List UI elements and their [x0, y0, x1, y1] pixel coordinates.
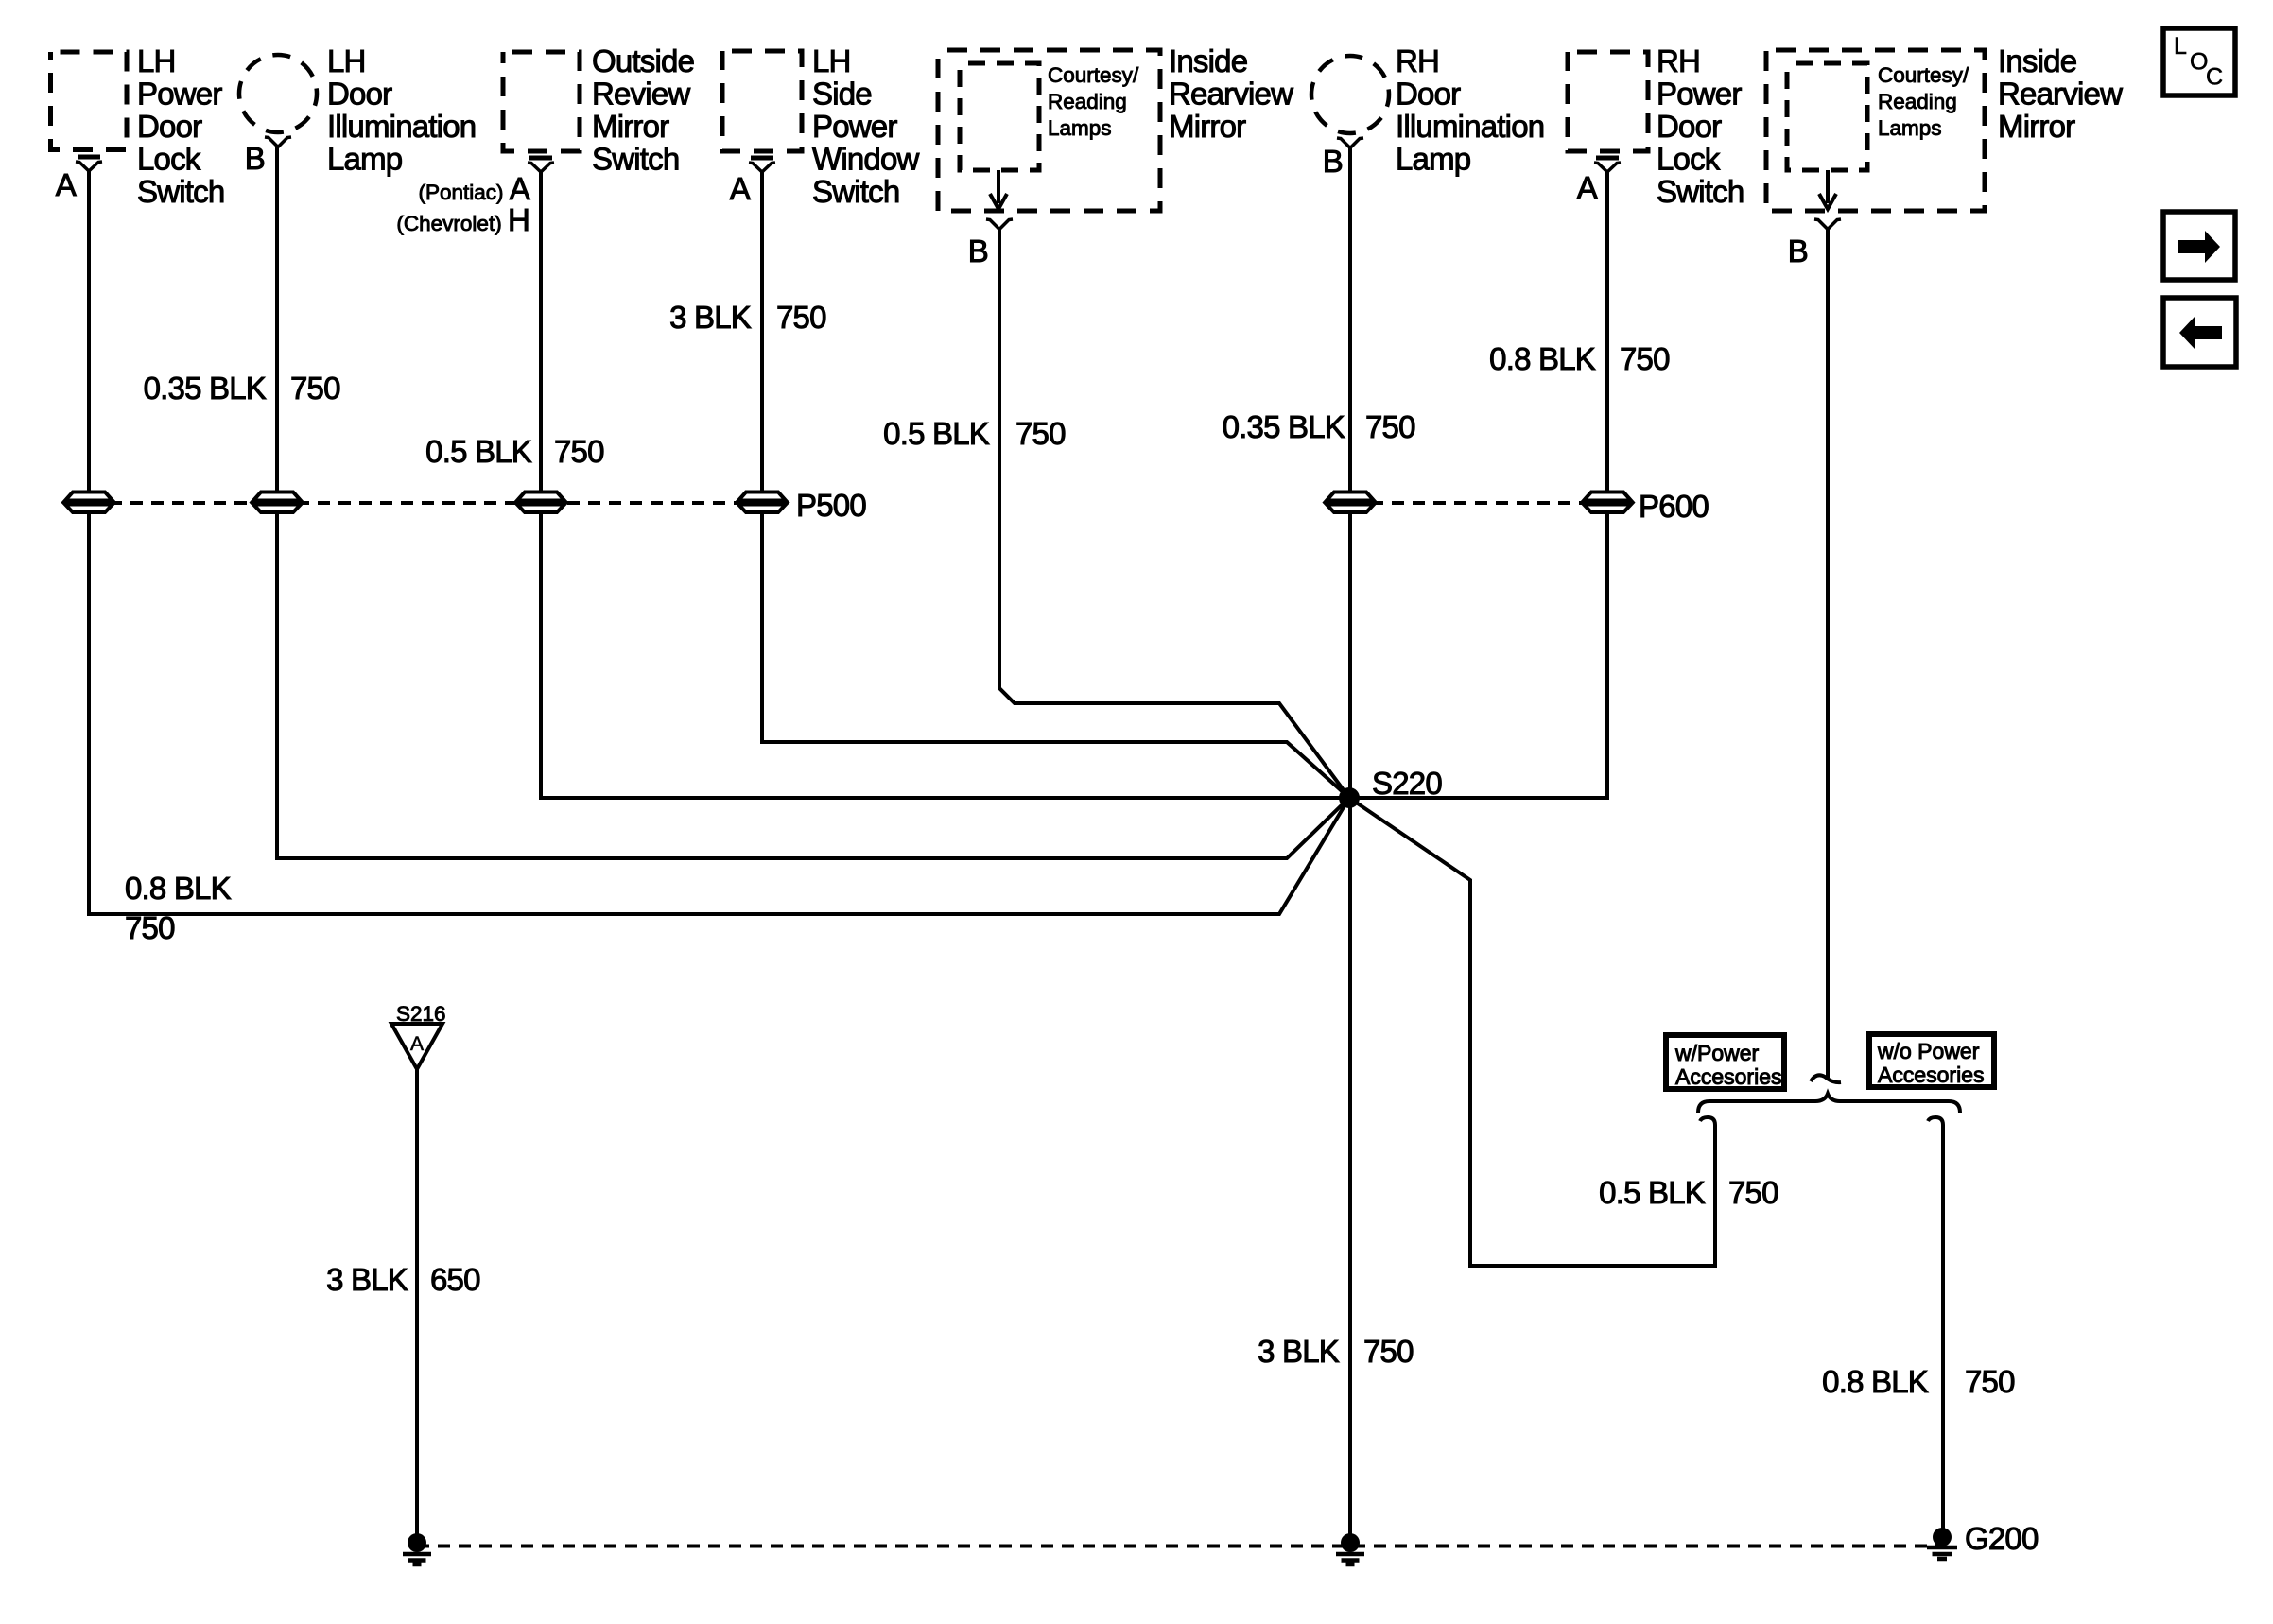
wire label 0.8 BLK 750 (G200 branch)	[1822, 1364, 2015, 1399]
inline connector P500 on window switch wire	[738, 492, 786, 513]
inline connector on RH illumination wire	[1327, 492, 1374, 513]
svg-text:Lamps: Lamps	[1878, 116, 1942, 140]
inside rearview mirror (right, dashed box)	[1766, 50, 1985, 211]
terminal of outside review mirror switch	[528, 158, 554, 172]
wire label 3 BLK 750 (window switch wire)	[669, 300, 826, 335]
P500 label	[796, 488, 866, 523]
svg-text:LH: LH	[812, 43, 851, 78]
courtesy/reading lamps label (right)	[1878, 63, 1969, 140]
svg-text:S216: S216	[396, 1002, 446, 1026]
svg-text:3 BLK: 3 BLK	[669, 300, 752, 335]
inside rearview mirror label (left)	[1169, 43, 1293, 144]
wire label 0.35 BLK 750 (RH illumination wire)	[1223, 409, 1415, 444]
ground symbol at S216 wire	[403, 1533, 431, 1564]
wire label 0.5 BLK 750 (mirror switch wire)	[425, 434, 604, 469]
svg-text:Door: Door	[1396, 77, 1461, 112]
svg-text:0.5 BLK: 0.5 BLK	[1599, 1175, 1706, 1210]
pin A label (RH power door lock switch)	[1577, 170, 1598, 205]
wire label 3 BLK 650 (S216 wire)	[326, 1262, 480, 1297]
svg-text:G200: G200	[1965, 1521, 2039, 1556]
inline connector on LH illumination wire	[253, 492, 301, 513]
wire from option split to G200 (0.8 BLK, w/o power branch)	[1928, 1117, 1943, 1541]
svg-text:Rearview: Rearview	[1998, 77, 2123, 112]
ground G200	[1927, 1528, 1957, 1559]
pin labels (Pontiac) A / (Chevrolet) H	[396, 171, 529, 237]
svg-text:3 BLK: 3 BLK	[326, 1262, 408, 1297]
arrow from courtesy lamps to mirror box edge (right)	[1819, 170, 1836, 209]
ground symbol at RH illumination wire	[1336, 1533, 1364, 1564]
wire label 3 BLK 750 (ground leg of RH illumination wire)	[1258, 1334, 1414, 1369]
svg-text:LH: LH	[137, 43, 176, 78]
inside rearview mirror (left, dashed box)	[938, 50, 1160, 211]
svg-text:Door: Door	[327, 77, 392, 112]
LH power door lock switch (dashed box)	[51, 52, 128, 150]
svg-text:Mirror: Mirror	[592, 109, 669, 144]
svg-text:750: 750	[125, 910, 175, 945]
svg-text:650: 650	[430, 1262, 480, 1297]
wire from LH side power window switch to S220	[762, 172, 1349, 798]
svg-text:B: B	[1788, 233, 1808, 268]
wire from inside rearview mirror (left) to S220	[999, 230, 1349, 798]
inline connector dashed line P500	[89, 501, 762, 505]
svg-text:Accesories: Accesories	[1878, 1063, 1984, 1087]
terminal A of RH power door lock switch	[1594, 158, 1621, 172]
wire label 0.5 BLK 750 (left mirror wire)	[883, 416, 1066, 451]
S220 label	[1372, 766, 1442, 801]
wire label 0.8 BLK 750 (LH door lock wire)	[125, 871, 232, 945]
svg-text:0.8 BLK: 0.8 BLK	[125, 871, 232, 906]
wire label 0.8 BLK 750 (RH door lock wire)	[1489, 341, 1670, 376]
svg-text:0.8 BLK: 0.8 BLK	[1489, 341, 1596, 376]
pin B label (RH door illumination lamp)	[1323, 144, 1343, 179]
arrow from courtesy lamps to mirror box edge (left)	[990, 170, 1007, 209]
svg-text:w/o Power: w/o Power	[1877, 1039, 1980, 1063]
RH door illumination lamp (dashed circle)	[1311, 56, 1389, 133]
svg-text:0.5 BLK: 0.5 BLK	[883, 416, 990, 451]
svg-text:A: A	[56, 167, 77, 202]
svg-text:Mirror: Mirror	[1169, 109, 1246, 144]
svg-text:Side: Side	[812, 77, 872, 112]
svg-text:RH: RH	[1396, 43, 1439, 78]
LOC legend box	[2163, 28, 2235, 95]
terminal B of RH door illumination lamp	[1337, 138, 1363, 148]
svg-text:P500: P500	[796, 488, 866, 523]
svg-text:B: B	[968, 233, 988, 268]
svg-text:Lock: Lock	[1657, 142, 1721, 177]
svg-text:Door: Door	[137, 109, 202, 144]
svg-text:0.35 BLK: 0.35 BLK	[144, 371, 267, 406]
svg-text:Lamp: Lamp	[1396, 142, 1470, 177]
LH side power window switch (dashed box)	[722, 51, 802, 151]
pin B label (inside rearview mirror left)	[968, 233, 988, 268]
courtesy/reading lamps (left, inner dashed box)	[960, 63, 1039, 170]
S216 splice symbol (triangle)	[391, 1024, 442, 1069]
w/Power Accesories option box	[1666, 1035, 1784, 1089]
S216 label	[396, 1002, 446, 1026]
svg-text:750: 750	[1363, 1334, 1414, 1369]
svg-text:750: 750	[1728, 1175, 1778, 1210]
svg-text:750: 750	[554, 434, 604, 469]
svg-text:750: 750	[290, 371, 340, 406]
svg-text:Illumination: Illumination	[327, 109, 476, 144]
LH door illumination lamp (dashed circle)	[239, 55, 317, 132]
wire from RH power door lock switch to S220	[1349, 172, 1607, 798]
G200 label	[1965, 1521, 2039, 1556]
svg-text:Outside: Outside	[592, 43, 694, 78]
wire from LH door illumination lamp to S220	[277, 147, 1349, 858]
svg-text:Illumination: Illumination	[1396, 109, 1544, 144]
svg-text:Power: Power	[812, 109, 897, 144]
svg-text:Review: Review	[592, 77, 690, 112]
svg-text:Lamps: Lamps	[1048, 116, 1112, 140]
svg-text:Door: Door	[1657, 109, 1722, 144]
svg-text:750: 750	[1620, 341, 1670, 376]
terminal B of inside rearview mirror (left)	[986, 219, 1013, 230]
svg-text:S220: S220	[1372, 766, 1442, 801]
svg-text:A: A	[410, 1033, 424, 1055]
inline connector dashed line P600	[1350, 501, 1607, 505]
svg-text:0.35 BLK: 0.35 BLK	[1223, 409, 1345, 444]
svg-text:Rearview: Rearview	[1169, 77, 1293, 112]
RH power door lock switch (dashed box)	[1568, 52, 1648, 151]
pin A label (LH power door lock switch)	[56, 167, 77, 202]
svg-text:Accesories: Accesories	[1675, 1064, 1781, 1089]
svg-text:Inside: Inside	[1169, 43, 1247, 78]
wire label 0.35 BLK 750 (LH illumination wire)	[144, 371, 340, 406]
pin B label (inside rearview mirror right)	[1788, 233, 1808, 268]
svg-text:C: C	[2206, 64, 2223, 91]
outside review mirror switch label	[592, 43, 694, 177]
svg-text:Courtesy/: Courtesy/	[1878, 63, 1969, 87]
w/o Power Accesories option box	[1869, 1034, 1994, 1087]
svg-text:Mirror: Mirror	[1998, 109, 2075, 144]
svg-text:750: 750	[1015, 416, 1066, 451]
courtesy/reading lamps label (left)	[1048, 63, 1139, 140]
svg-text:Reading: Reading	[1048, 90, 1127, 113]
inside rearview mirror label (right)	[1998, 43, 2123, 144]
terminal A of LH power door lock switch	[76, 157, 102, 171]
svg-text:Switch: Switch	[812, 174, 899, 209]
svg-text:Switch: Switch	[592, 142, 679, 177]
P600 label	[1639, 489, 1709, 524]
LH door illumination lamp label	[327, 43, 476, 177]
terminal B of LH door illumination lamp	[265, 137, 291, 147]
svg-text:Switch: Switch	[1657, 174, 1744, 209]
svg-text:Switch: Switch	[137, 174, 224, 209]
svg-text:A: A	[730, 171, 751, 206]
svg-text:Courtesy/: Courtesy/	[1048, 63, 1139, 87]
svg-text:3 BLK: 3 BLK	[1258, 1334, 1340, 1369]
svg-text:750: 750	[1965, 1364, 2015, 1399]
svg-text:Window: Window	[812, 142, 920, 177]
svg-text:P600: P600	[1639, 489, 1709, 524]
wire from inside rearview mirror (right) down to option split	[1811, 230, 1841, 1082]
svg-text:w/Power: w/Power	[1674, 1041, 1760, 1065]
LH power door lock switch label	[137, 43, 224, 209]
svg-text:750: 750	[776, 300, 826, 335]
svg-text:RH: RH	[1657, 43, 1700, 78]
wire from RH door illumination lamp through S220 to ground	[1348, 148, 1352, 1541]
pin A label (LH side power window switch)	[730, 171, 751, 206]
svg-text:LH: LH	[327, 43, 366, 78]
RH door illumination lamp label	[1396, 43, 1544, 177]
svg-text:Lamp: Lamp	[327, 142, 402, 177]
inline connector P600 on RH door lock wire	[1584, 492, 1631, 513]
svg-text:B: B	[245, 141, 265, 176]
wire from LH power door lock switch to S220	[89, 171, 1349, 914]
svg-text:0.5 BLK: 0.5 BLK	[425, 434, 532, 469]
pin B label (LH door illumination lamp)	[245, 141, 265, 176]
wire from S216 to ground	[415, 1069, 419, 1541]
inline connector on mirror switch wire	[517, 492, 564, 513]
ground bus dashed line	[417, 1545, 1941, 1548]
svg-text:Power: Power	[1657, 77, 1742, 112]
svg-text:A: A	[1577, 170, 1598, 205]
svg-text:B: B	[1323, 144, 1343, 179]
svg-text:L: L	[2174, 33, 2187, 60]
LH side power window switch label	[812, 43, 920, 209]
svg-text:Reading: Reading	[1878, 90, 1957, 113]
outside review mirror switch (dashed box)	[503, 52, 580, 151]
svg-text:Lock: Lock	[137, 142, 201, 177]
inline connector on LH door lock wire	[65, 492, 113, 513]
wire from outside review mirror switch to S220	[541, 172, 1343, 798]
svg-text:750: 750	[1365, 409, 1415, 444]
option split brace	[1698, 1094, 1960, 1113]
wire label 0.5 BLK 750 (w/Power branch)	[1599, 1175, 1778, 1210]
svg-text:0.8 BLK: 0.8 BLK	[1822, 1364, 1929, 1399]
right arrow legend box	[2163, 212, 2235, 280]
RH power door lock switch label	[1657, 43, 1744, 209]
S220 splice	[1339, 787, 1360, 808]
courtesy/reading lamps (right, inner dashed box)	[1787, 63, 1867, 170]
terminal A of LH side power window switch	[749, 158, 775, 172]
left arrow legend box	[2163, 298, 2236, 367]
svg-text:Power: Power	[137, 77, 222, 112]
wire from S220 to w/Power branch (0.5 BLK)	[1349, 798, 1715, 1266]
terminal B of inside rearview mirror (right)	[1814, 219, 1841, 230]
svg-text:Inside: Inside	[1998, 43, 2076, 78]
